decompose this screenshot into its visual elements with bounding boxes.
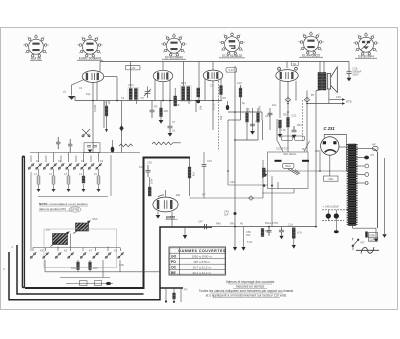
mains sine symbol [356, 247, 379, 253]
svg-text:R3: R3 [154, 105, 158, 109]
HT rail wire [160, 226, 316, 228]
volume-tone control block outline [268, 152, 309, 189]
band switch row 2 [30, 234, 124, 259]
pot wiper bar 1 [275, 160, 282, 162]
svg-text:6,3V: 6,3V [229, 68, 235, 72]
triode-pentode V1 EABC80 envelope [82, 71, 104, 83]
svg-text:10n: 10n [272, 103, 277, 107]
speaker link diamond 2 [304, 97, 309, 102]
svg-text:50k: 50k [219, 115, 223, 120]
svg-text:GO: GO [171, 255, 177, 259]
detector network wires [228, 66, 262, 247]
screen resistor R5 [174, 96, 177, 106]
AVC cap blob [226, 105, 229, 110]
svg-text:NOTA: commutateur vu en posit: NOTA: commutateur vu en position [39, 202, 88, 206]
shield label box on rail [126, 65, 141, 70]
electrolytic cap C48 [322, 205, 352, 234]
svg-text:C14: C14 [265, 114, 270, 118]
trimmer box [84, 143, 100, 153]
detector cap C12 [250, 124, 255, 126]
chassis bus A (double bar left) [22, 156, 25, 289]
shield label box on rail 2 [226, 68, 237, 73]
triode-hexode V3 ECH81 envelope [203, 70, 223, 81]
svg-text:C25: C25 [336, 95, 341, 99]
tube base diagram EM85 (top left) [25, 36, 47, 57]
svg-text:HP: HP [372, 143, 376, 147]
svg-text:BE: BE [171, 271, 176, 275]
oscillator trimmer CV2 [74, 221, 91, 234]
detector resistor R12 [257, 113, 260, 122]
svg-text:49,1 a 41,2 m.: 49,1 a 41,2 m. [192, 271, 211, 275]
V4 electrode wires [280, 81, 296, 152]
resistor zigzag top [119, 144, 133, 147]
V4 grid resistor R30 [287, 118, 290, 128]
trimmer cap with arrows [144, 87, 151, 99]
band section link wire right [110, 155, 112, 196]
svg-text:R5 1k: R5 1k [212, 103, 216, 110]
svg-text:1M: 1M [107, 101, 111, 105]
terminal strip (rear connector) [348, 144, 355, 226]
svg-text:16,7 a 51,5 m.: 16,7 a 51,5 m. [192, 265, 211, 269]
svg-text:C2 50p: C2 50p [103, 101, 107, 110]
pot link diagonals [278, 141, 310, 152]
svg-text:MTB: MTB [346, 100, 352, 104]
svg-text:150: 150 [164, 109, 169, 113]
V5 grid cap [146, 165, 151, 177]
svg-text:PV: PV [184, 288, 188, 292]
V5 leads and ground [158, 158, 190, 227]
antenna input wire [72, 77, 122, 153]
svg-text:K6: K6 [64, 249, 68, 253]
detector resistor R11 [246, 113, 249, 122]
svg-text:C30: C30 [147, 161, 152, 165]
dropping resistor R42 [261, 229, 264, 237]
svg-text:+ C48 2x50uF: + C48 2x50uF [323, 205, 340, 209]
svg-text:ECH 81/6AJ8: ECH 81/6AJ8 [222, 54, 242, 58]
cap blob [111, 147, 115, 153]
svg-text:CV: CV [46, 228, 50, 232]
ground right [382, 234, 386, 238]
shield label box on rail 3 [291, 62, 298, 66]
svg-text:6,3V: 6,3V [247, 240, 253, 244]
speaker link diamond 1 [285, 97, 290, 102]
AF coupling wires [190, 120, 321, 227]
svg-text:R30: R30 [283, 113, 288, 117]
dropper resistor R44 [292, 228, 295, 239]
svg-text:0,1: 0,1 [172, 129, 176, 133]
svg-text:K1: K1 [36, 159, 40, 163]
chassis bus B [17, 245, 144, 294]
svg-text:MF1: MF1 [129, 83, 135, 87]
heater dashed wire under caps [322, 220, 344, 222]
svg-text:1M: 1M [247, 108, 251, 112]
svg-text:10n: 10n [139, 165, 144, 169]
detector resistor R10 [239, 88, 242, 97]
output transformer [318, 73, 326, 91]
svg-text:500V: 500V [353, 73, 359, 77]
svg-text:R41: R41 [230, 222, 235, 226]
svg-text:R40: R40 [216, 222, 221, 226]
row2 cap blob [106, 282, 111, 285]
coupling cap C14 [268, 113, 273, 115]
svg-text:R15: R15 [71, 266, 76, 270]
svg-text:C1: C1 [79, 86, 83, 90]
svg-text:OC: OC [171, 266, 177, 270]
svg-text:C40: C40 [230, 180, 235, 184]
svg-text:K8: K8 [114, 249, 118, 253]
svg-text:15p: 15p [86, 92, 91, 96]
bus stub to output jacks [160, 287, 183, 289]
top supply rail wire [100, 62, 349, 89]
svg-text:C47: C47 [198, 220, 203, 224]
AF link diamond [249, 196, 254, 200]
V4 cathode cap [280, 126, 297, 134]
magic eye EM85 face [321, 137, 339, 155]
misc right-side vertical from strip bottom [377, 152, 379, 228]
AGC dotted line [218, 81, 220, 150]
svg-text:C5: C5 [141, 96, 145, 100]
svg-text:R16: R16 [93, 266, 98, 270]
arrows down from detector verticals [233, 247, 237, 251]
row2 resistor [89, 262, 92, 270]
svg-text:dans la position PO: dans la position PO [39, 207, 66, 211]
tube base diagram EF89 [163, 35, 185, 56]
grid resistor R1 with arrow [105, 106, 108, 116]
svg-text:4,7k: 4,7k [297, 231, 303, 235]
AF amp tube V5 envelope [153, 195, 178, 212]
tube base diagram ECH81 [221, 33, 243, 54]
gammes table [169, 247, 226, 275]
svg-text:MF2: MF2 [181, 81, 187, 85]
tube base diagram EL84 [300, 33, 322, 54]
svg-text:C10: C10 [237, 81, 242, 85]
IF transformer MF1 [128, 83, 139, 104]
svg-text:EF 89/6DA6: EF 89/6DA6 [165, 55, 183, 59]
ground (antenna) [68, 96, 75, 100]
row2 box component [80, 281, 88, 286]
grid stopper resistor R21 [152, 142, 181, 145]
tube base pin numbers [23, 31, 379, 60]
svg-text:Toutes les valeurs indiquees s: Toutes les valeurs indiquees sont mesure… [199, 289, 294, 293]
wires inside control block [262, 171, 348, 193]
svg-text:R6: R6 [223, 96, 227, 100]
V2 electrode wires [155, 79, 170, 101]
svg-text:170: 170 [281, 128, 286, 132]
svg-text:C4: C4 [121, 96, 125, 100]
svg-text:C35: C35 [119, 263, 124, 267]
svg-text:10M: 10M [150, 179, 154, 184]
decoupling cap C5 [150, 110, 155, 118]
tone pot hatched [288, 169, 300, 175]
svg-text:OSC: OSC [92, 217, 98, 221]
svg-text:C 231: C 231 [324, 126, 336, 131]
svg-text:COUP.TOT: COUP.TOT [276, 147, 289, 151]
magic eye wiring [315, 135, 346, 177]
svg-text:C7: C7 [172, 120, 176, 124]
PU plug symbols [373, 147, 379, 151]
output pentode V4 EL84 envelope [276, 67, 298, 81]
V3 electrode wires [213, 79, 221, 131]
svg-text:mesures en service: mesures en service [236, 285, 265, 289]
volume pot (left, vertical) [262, 168, 265, 177]
volume feed wire [263, 108, 278, 141]
pentode V2 EF89 envelope [153, 70, 173, 81]
svg-text:K4: K4 [100, 159, 104, 163]
keyboard switch enclosure [44, 229, 117, 268]
mains switch INT [352, 239, 359, 247]
row2 resistor [77, 262, 80, 270]
svg-text:PU: PU [371, 153, 375, 157]
row2 box component [95, 281, 102, 286]
cathode resistor R4 [160, 108, 163, 117]
rail cap C47 [204, 224, 206, 229]
tone switch box [283, 163, 295, 168]
svg-text:-460-: -460- [328, 177, 334, 181]
svg-text:0,22M: 0,22M [93, 105, 97, 112]
grounds under switch row 1 [37, 189, 41, 192]
knob label box 2 [295, 136, 305, 141]
label box 460 [324, 176, 339, 181]
svg-text:REG: REG [285, 164, 291, 168]
svg-text:187 a 578 m.: 187 a 578 m. [193, 260, 211, 264]
svg-text:K7: K7 [89, 249, 93, 253]
svg-text:EABC 80/6AK8: EABC 80/6AK8 [79, 56, 102, 60]
wires row 2 top [33, 248, 160, 284]
MTB arrows [342, 98, 345, 100]
fuse [365, 232, 367, 238]
strip output leads [357, 149, 378, 229]
svg-text:INT: INT [361, 241, 366, 245]
svg-text:K3: K3 [81, 159, 85, 163]
svg-text:EM85: EM85 [166, 216, 175, 220]
svg-text:47k: 47k [192, 172, 196, 177]
svg-text:50750: 50750 [71, 208, 80, 212]
tube base diagram EZ80 [355, 34, 377, 55]
V4 cathode resistor R31 [279, 120, 282, 128]
tuning gang CV1 [51, 232, 70, 247]
coils under switch row 1 [37, 176, 100, 184]
osc coil L7 [197, 88, 200, 97]
svg-text:C9: C9 [210, 84, 214, 88]
svg-text:PO: PO [171, 260, 176, 264]
ground V2 cathode [159, 120, 164, 124]
junction dots [92, 100, 321, 228]
svg-text:1050 a 2000 m.: 1050 a 2000 m. [192, 254, 213, 258]
loudspeaker [327, 67, 337, 93]
svg-text:5uF: 5uF [224, 213, 229, 217]
arrow junction above table [184, 227, 186, 235]
filter cap C50 [267, 227, 272, 236]
svg-text:0,5M: 0,5M [258, 106, 262, 112]
tube base diagram EABC80 [79, 36, 101, 57]
svg-text:6,3V: 6,3V [130, 66, 136, 70]
decoupling cap C49 [279, 227, 284, 236]
V5 grid resistor [148, 187, 151, 196]
pot wiper bar 2 [302, 160, 309, 162]
svg-text:et s appliquent a un fonctionn: et s appliquent a un fonctionnement sur … [206, 294, 287, 298]
mid bus wire y100 [75, 96, 222, 128]
output leads under buses [166, 288, 181, 302]
svg-text:BL: BL [293, 62, 297, 66]
svg-text:K5: K5 [40, 249, 44, 253]
chassis bus C [9, 227, 212, 300]
svg-text:K2: K2 [58, 159, 62, 163]
osc resistor R7 [220, 86, 223, 95]
knob label box 1 [282, 136, 293, 141]
band switch row 1 [30, 152, 140, 154]
svg-text:0,9A: 0,9A [369, 233, 375, 237]
svg-text:20k: 20k [199, 105, 203, 110]
svg-text:BT: BT [311, 93, 315, 97]
tone feedback dashed wire [302, 100, 304, 141]
band section link wire left [30, 172, 32, 251]
component value labels [34, 81, 341, 270]
HT wire from output transformer down [307, 89, 342, 227]
svg-text:EL 84/6BQ5: EL 84/6BQ5 [302, 53, 320, 57]
AF feed wire with cap C15 [202, 152, 207, 198]
chassis bus A run [25, 158, 190, 289]
svg-text:Valeurs et reperage des co: Valeurs et reperage des courants [226, 280, 275, 284]
svg-text:C22: C22 [292, 114, 297, 118]
ground mains [374, 238, 378, 242]
IF transformer MF2 [181, 81, 191, 101]
mains section wires [353, 158, 385, 250]
svg-text:R31: R31 [297, 123, 302, 127]
V5 anode coil [188, 167, 191, 178]
svg-text:25u: 25u [246, 233, 251, 237]
svg-text:1,2k: 1,2k [288, 222, 294, 226]
screen cap C7 [168, 126, 173, 133]
svg-text:EM: EM [176, 193, 180, 197]
svg-text:C15: C15 [207, 159, 212, 163]
svg-text:BAL.REGL: BAL.REGL [284, 152, 297, 156]
svg-text:GAMMES COUVERTES: GAMMES COUVERTES [178, 249, 226, 253]
padder caps above switch row1 [56, 137, 72, 153]
tone cap on speaker [346, 69, 351, 78]
rail junction blob [234, 212, 237, 215]
wire MF2 to V3 [189, 62, 205, 105]
